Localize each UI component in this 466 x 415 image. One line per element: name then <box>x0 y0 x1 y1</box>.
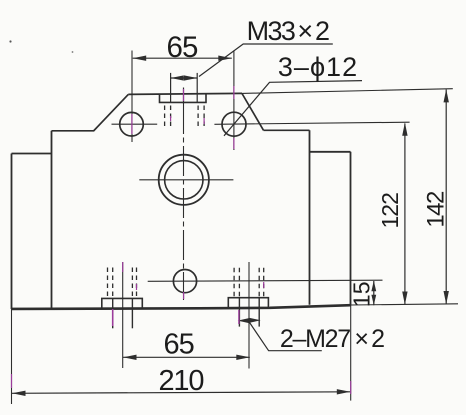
svg-text:210: 210 <box>159 365 204 397</box>
svg-text:15: 15 <box>349 282 375 308</box>
svg-text:65: 65 <box>163 329 193 361</box>
svg-text:2–M27×2: 2–M27×2 <box>280 325 384 353</box>
svg-text:122: 122 <box>377 193 403 229</box>
svg-text:65: 65 <box>166 31 198 64</box>
svg-text:3–ϕ12: 3–ϕ12 <box>278 52 358 82</box>
svg-text:M33×2: M33×2 <box>247 16 329 46</box>
svg-text:142: 142 <box>423 191 450 228</box>
